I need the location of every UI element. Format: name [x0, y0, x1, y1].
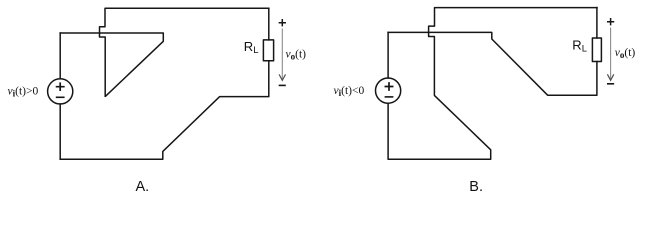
wire A source bottom lead: [59, 104, 61, 159]
svg-text:vi(t)>0: vi(t)>0: [8, 86, 39, 99]
source B minus sign: [385, 96, 392, 98]
arrow vo(t) A head: [279, 74, 285, 80]
source A minus sign: [57, 96, 64, 98]
plus label of vo(t) B: [608, 19, 614, 25]
svg-text:B.: B.: [469, 179, 483, 195]
resistor RL circuit A: [263, 40, 273, 61]
wire B source top lead: [387, 32, 389, 78]
wire A source top lead: [59, 33, 61, 79]
svg-text:vo(t): vo(t): [286, 48, 307, 61]
svg-text:RL: RL: [244, 39, 259, 56]
wire A middle rail and wedge right edge (diode shape): [60, 33, 163, 96]
source B plus sign: [385, 83, 392, 90]
arrow vo(t) A shaft: [281, 29, 283, 80]
wire B top: top rail with crossover jog down, diagonal, step to bottom rail: [388, 8, 597, 160]
svg-text:vo(t): vo(t): [615, 47, 636, 60]
wire B RL top lead: [596, 8, 598, 38]
source Vi circuit B: [376, 78, 401, 103]
minus label of vo(t) A: [280, 84, 286, 86]
arrow vo(t) B shaft: [610, 28, 612, 80]
minus label of vo(t) B: [608, 83, 614, 85]
plus label of vo(t) A: [279, 20, 285, 26]
arrow vo(t) B head: [607, 74, 613, 80]
svg-text:A.: A.: [136, 179, 150, 195]
svg-text:vi(t)<0: vi(t)<0: [334, 85, 365, 98]
source Vi circuit A: [48, 79, 73, 104]
svg-text:RL: RL: [572, 38, 587, 55]
wire A top: top rail with crossover jog down to wedge left edge: [100, 8, 269, 96]
source A plus sign: [57, 83, 64, 90]
resistor RL circuit B: [592, 38, 601, 62]
wire A RL top lead: [268, 8, 270, 40]
wire B middle rail, diagonal down to RL branch bottom: [388, 32, 597, 95]
wire A bottom rail with step and 45-degree diagonal up to RL branch: [60, 61, 269, 160]
